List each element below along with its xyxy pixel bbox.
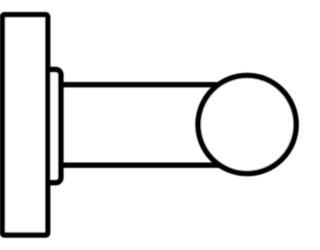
wall plate — [2, 15, 47, 235]
mounting collar — [45, 70, 61, 183]
hook arm bottom line — [59, 162, 228, 167]
hook arm top line — [59, 82, 228, 87]
knob circle — [198, 76, 296, 174]
